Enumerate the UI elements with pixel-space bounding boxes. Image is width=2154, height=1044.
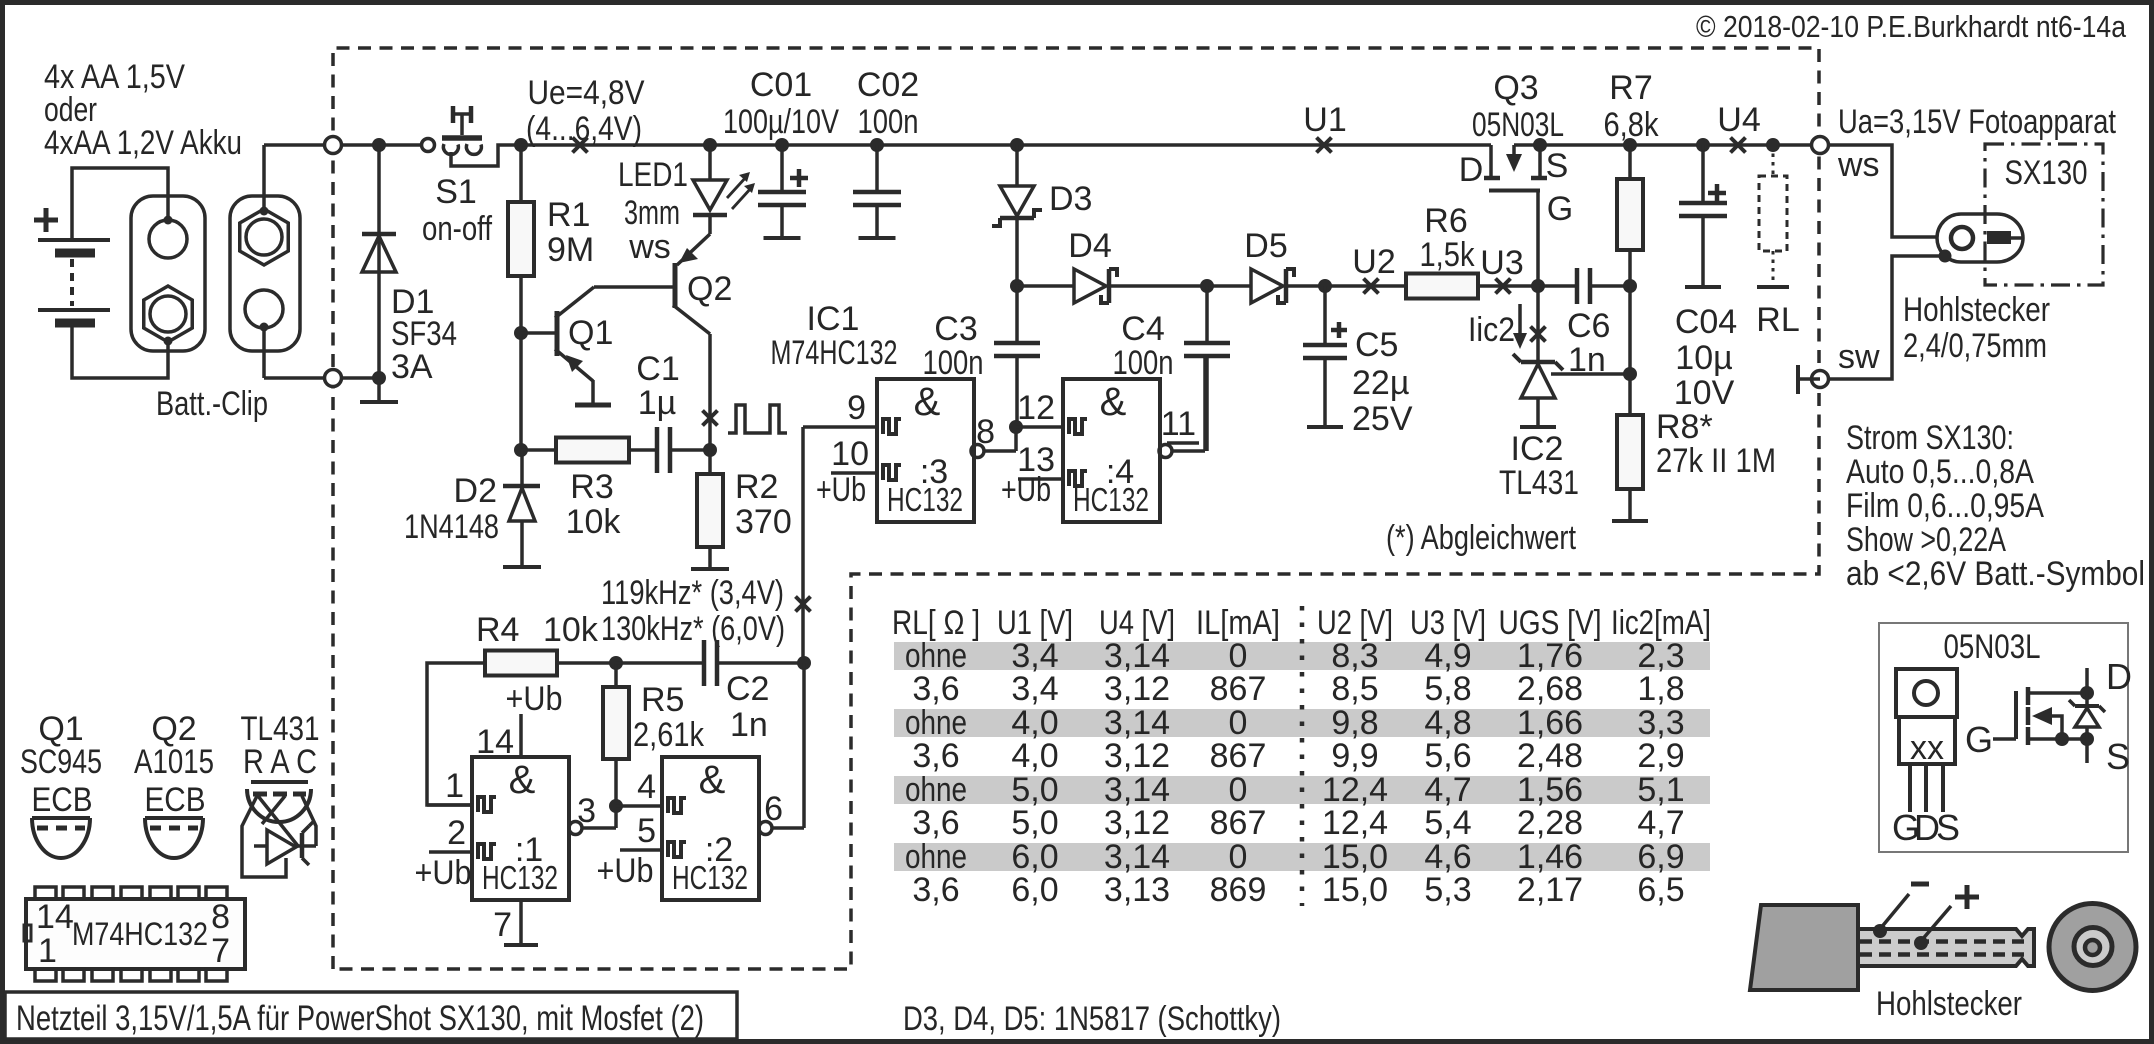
LED LED1 bbox=[708, 145, 712, 179]
connector sleeve dot bbox=[1939, 250, 1952, 263]
svg-text:11: 11 bbox=[1161, 405, 1196, 443]
gate :3 pin 10 bbox=[831, 471, 877, 475]
svg-text:Q1: Q1 bbox=[568, 314, 613, 352]
gate :4 pin 13 bbox=[1018, 477, 1063, 481]
svg-text:9: 9 bbox=[847, 389, 866, 427]
svg-text:3,13: 3,13 bbox=[1104, 871, 1170, 909]
main dashed outline box bbox=[333, 48, 1819, 969]
transistor Q1 bbox=[555, 311, 560, 356]
svg-text:100µ/10V: 100µ/10V bbox=[723, 103, 839, 141]
wire bottom rail bbox=[264, 376, 325, 380]
svg-text:U2: U2 bbox=[1352, 243, 1395, 281]
svg-text:130kHz* (6,0V): 130kHz* (6,0V) bbox=[601, 610, 785, 648]
svg-text:2,17: 2,17 bbox=[1517, 871, 1583, 909]
node terminal top-left bbox=[264, 143, 325, 147]
junction dot ref node bbox=[1623, 367, 1637, 381]
svg-text:5,0: 5,0 bbox=[1011, 804, 1058, 842]
gate :4 pin 12 bbox=[1016, 425, 1063, 429]
svg-text:370: 370 bbox=[735, 503, 792, 541]
svg-text:G: G bbox=[1547, 190, 1573, 228]
svg-text:2: 2 bbox=[447, 814, 466, 852]
transistor Q3 mosfet bbox=[1489, 145, 1493, 178]
svg-text:2,68: 2,68 bbox=[1517, 670, 1583, 708]
svg-text:10k: 10k bbox=[566, 503, 622, 541]
svg-text:on-off: on-off bbox=[422, 210, 492, 248]
svg-text:9M: 9M bbox=[547, 231, 594, 269]
ground below Q1 emitter bbox=[575, 403, 611, 408]
SX130 dash-dot box bbox=[1985, 144, 2103, 285]
junction dot R7 top bbox=[1623, 138, 1637, 152]
C01 plus sign bbox=[790, 176, 808, 181]
gate :2 pin 5 bbox=[620, 848, 662, 852]
svg-text:D4: D4 bbox=[1068, 227, 1111, 265]
svg-text:A1015: A1015 bbox=[134, 743, 214, 781]
junction dot D1 top bbox=[372, 138, 386, 152]
capacitor C02 bbox=[875, 145, 879, 192]
junction dot D3 top bbox=[1010, 138, 1024, 152]
gate :1 schmitt symbols bbox=[478, 797, 496, 812]
junction dot C04 top bbox=[1696, 138, 1710, 152]
node terminal bottom-left bbox=[325, 370, 342, 387]
Hohlstecker plus lead bbox=[1914, 936, 1928, 950]
measure cross Q2 collector bbox=[703, 411, 718, 426]
svg-text:6,0: 6,0 bbox=[1011, 871, 1058, 909]
capacitor C01 bbox=[780, 145, 784, 192]
capacitor C1 bbox=[655, 427, 660, 473]
table grey row bands bbox=[894, 642, 1710, 670]
svg-text:ECB: ECB bbox=[145, 781, 206, 819]
Q1 package symbol bbox=[32, 816, 90, 820]
svg-text:22µ: 22µ bbox=[1352, 364, 1409, 402]
svg-text:C1: C1 bbox=[636, 350, 679, 388]
op-amp U4 gate IC1:2 box bbox=[662, 757, 759, 900]
svg-text:10V: 10V bbox=[1674, 374, 1735, 412]
svg-text:5,3: 5,3 bbox=[1424, 871, 1471, 909]
capacitor C4 bbox=[1205, 286, 1209, 343]
Hohlstecker barrel bbox=[1858, 929, 2034, 966]
svg-text:3,12: 3,12 bbox=[1104, 804, 1170, 842]
svg-text:12: 12 bbox=[1017, 389, 1055, 427]
C04 plus sign bbox=[1708, 191, 1726, 196]
svg-text:10: 10 bbox=[831, 435, 869, 473]
svg-text:Ua=3,15V Fotoapparat: Ua=3,15V Fotoapparat bbox=[1838, 103, 2116, 141]
svg-text:C04: C04 bbox=[1675, 303, 1737, 341]
battery clip 1 bottom contact hex bbox=[144, 286, 192, 342]
svg-text:HC132: HC132 bbox=[482, 859, 558, 896]
resistor R2 bbox=[708, 450, 712, 474]
ground below IC2 bbox=[1520, 425, 1556, 429]
battery plus sign bbox=[34, 218, 58, 223]
junction dot C4 top node bbox=[1200, 279, 1214, 293]
ground below D2 bbox=[503, 565, 541, 569]
resistor R7 bbox=[1628, 145, 1632, 179]
wire pin3 to R5 node bbox=[614, 806, 618, 828]
svg-text:D3: D3 bbox=[1049, 180, 1092, 218]
op-amp U1 gate IC1:3 box bbox=[877, 379, 974, 522]
junction dot R1 top bbox=[514, 138, 528, 152]
wire top rail to switch bbox=[341, 143, 422, 147]
svg-text:3,6: 3,6 bbox=[912, 871, 959, 909]
svg-text:S: S bbox=[1546, 147, 1569, 185]
svg-text:Auto 0,5...0,8A: Auto 0,5...0,8A bbox=[1846, 453, 2034, 491]
junction dot D3-D4 node bbox=[1010, 279, 1024, 293]
svg-text:U4: U4 bbox=[1717, 101, 1760, 139]
svg-text:6,8k: 6,8k bbox=[1604, 106, 1660, 144]
svg-text:1n: 1n bbox=[730, 706, 768, 744]
svg-text:10k: 10k bbox=[543, 611, 599, 649]
shunt regulator IC2 TL431 bbox=[1536, 286, 1540, 362]
svg-text:ws: ws bbox=[628, 228, 671, 266]
svg-text:LED1: LED1 bbox=[618, 156, 688, 194]
svg-text:Q2: Q2 bbox=[687, 270, 732, 308]
svg-text:Netzteil 3,15V/1,5A für PowerS: Netzteil 3,15V/1,5A für PowerShot SX130,… bbox=[16, 999, 704, 1038]
wire switch bypass loop bbox=[451, 145, 521, 166]
ground below C5 bbox=[1307, 425, 1343, 429]
wire D4 to D5 bbox=[1109, 284, 1251, 288]
svg-text:TL431: TL431 bbox=[1499, 464, 1579, 502]
svg-text:05N03L: 05N03L bbox=[1944, 628, 2041, 666]
svg-text:+Ub: +Ub bbox=[415, 854, 472, 892]
wire R4 left to pin1 bbox=[427, 663, 485, 805]
wire pin6 up to C2 node bbox=[802, 663, 806, 828]
gate :2 pin 4 bbox=[616, 804, 662, 808]
svg-text:C6: C6 bbox=[1567, 307, 1610, 345]
gate :3 output bubble pin 8 bbox=[971, 445, 984, 458]
Hohlstecker barrel dashes bbox=[1860, 939, 2028, 944]
battery clip 2 top contact hex bbox=[240, 209, 288, 265]
svg-text:U3: U3 bbox=[1480, 244, 1523, 282]
svg-text:C01: C01 bbox=[750, 66, 812, 104]
svg-text:867: 867 bbox=[1210, 737, 1267, 775]
svg-text:SX130: SX130 bbox=[2005, 154, 2088, 192]
junction dot LED1 top bbox=[703, 138, 717, 152]
battery clip 1 top contact bbox=[149, 220, 187, 258]
svg-text:14: 14 bbox=[36, 898, 74, 936]
Hohlstecker plug body bbox=[1750, 905, 1858, 990]
svg-text:1: 1 bbox=[445, 767, 464, 805]
svg-text:1,8: 1,8 bbox=[1637, 670, 1684, 708]
svg-text:C5: C5 bbox=[1355, 326, 1398, 364]
LED1 light arrows bbox=[727, 176, 747, 198]
svg-text:HC132: HC132 bbox=[887, 481, 963, 518]
capacitor C5 electrolytic bbox=[1323, 286, 1327, 345]
svg-text:Iic2: Iic2 bbox=[1468, 311, 1515, 349]
svg-text:&: & bbox=[699, 758, 726, 802]
svg-text:3,12: 3,12 bbox=[1104, 737, 1170, 775]
svg-text:Film 0,6...0,95A: Film 0,6...0,95A bbox=[1846, 487, 2044, 525]
svg-text:25V: 25V bbox=[1352, 400, 1413, 438]
ground below RL bbox=[1757, 285, 1789, 289]
connector jack outline bbox=[1937, 214, 2023, 262]
wire R1 to R3 node bbox=[519, 333, 523, 450]
junction dot D1 bottom bbox=[372, 371, 386, 385]
gate :1 output bubble pin 3 bbox=[569, 822, 582, 835]
C5 plus sign bbox=[1331, 328, 1347, 333]
diode D1 bbox=[377, 145, 381, 378]
junction dot S bbox=[1533, 138, 1547, 152]
title box bbox=[5, 992, 737, 1039]
svg-text:4xAA 1,2V Akku: 4xAA 1,2V Akku bbox=[44, 124, 242, 162]
wire pin9 to C2 node bbox=[801, 427, 805, 664]
resistor R5 bbox=[614, 663, 618, 687]
svg-text:3,12: 3,12 bbox=[1104, 670, 1170, 708]
svg-text:IC2: IC2 bbox=[1511, 430, 1564, 468]
svg-text:D5: D5 bbox=[1244, 227, 1287, 265]
sw stub bbox=[1798, 377, 1820, 381]
svg-text:8: 8 bbox=[976, 413, 995, 451]
junction dot C2 right bbox=[797, 656, 811, 670]
junction dot C5 top node bbox=[1318, 279, 1332, 293]
ground below C04 bbox=[1685, 285, 1721, 289]
wire sw to connector bbox=[1829, 256, 1943, 379]
measure cross Ue bbox=[573, 138, 588, 153]
gate :2 output bubble pin 6 bbox=[759, 822, 772, 835]
svg-text:HC132: HC132 bbox=[672, 859, 748, 896]
svg-text:R6: R6 bbox=[1424, 202, 1467, 240]
svg-text:R3: R3 bbox=[570, 468, 613, 506]
svg-text:5: 5 bbox=[637, 812, 656, 850]
svg-text:ab <2,6V Batt.-Symbol: ab <2,6V Batt.-Symbol bbox=[1846, 555, 2145, 593]
svg-text:Show >0,22A: Show >0,22A bbox=[1846, 521, 2006, 559]
svg-text:Ue=4,8V: Ue=4,8V bbox=[528, 74, 645, 112]
svg-text:C2: C2 bbox=[726, 670, 769, 708]
svg-text:xx: xx bbox=[1910, 729, 1944, 767]
svg-text:27k II 1M: 27k II 1M bbox=[1656, 442, 1776, 480]
resistor R4 bbox=[485, 651, 557, 676]
Iic2 arrow and label bbox=[1518, 304, 1522, 336]
diode D2 bbox=[520, 450, 524, 486]
gate :3 pin 9 bbox=[803, 425, 877, 429]
svg-text:&: & bbox=[1100, 380, 1127, 424]
svg-text:2,9: 2,9 bbox=[1637, 737, 1684, 775]
junction dot C02 top bbox=[870, 138, 884, 152]
svg-text:R A C: R A C bbox=[243, 743, 317, 781]
junction dot C01 top bbox=[775, 138, 789, 152]
svg-text:R4: R4 bbox=[476, 611, 519, 649]
junction dot RL top bbox=[1766, 138, 1780, 152]
svg-text:867: 867 bbox=[1210, 804, 1267, 842]
Hohlstecker coax disc bbox=[2049, 904, 2136, 991]
connector ring contact bbox=[1951, 227, 1973, 249]
svg-text:100n: 100n bbox=[858, 103, 919, 141]
svg-text:ws: ws bbox=[1837, 146, 1880, 184]
junction dot R2 top bbox=[703, 443, 717, 457]
TL431 package symbol bbox=[251, 780, 308, 784]
svg-text:&: & bbox=[509, 758, 536, 802]
ground below R8 bbox=[1612, 519, 1648, 523]
wire rail S1 to mosfet bbox=[521, 143, 1491, 147]
svg-text:Batt.-Clip: Batt.-Clip bbox=[156, 385, 268, 423]
svg-text:Hohlstecker: Hohlstecker bbox=[1903, 291, 2050, 329]
wire Q2 collector down bbox=[708, 334, 712, 450]
svg-text:R2: R2 bbox=[735, 468, 778, 506]
battery clip 1 outline bbox=[131, 196, 205, 351]
junction dot pin3-R5-pin4 bbox=[609, 799, 623, 813]
svg-text:3,6: 3,6 bbox=[912, 737, 959, 775]
svg-text:(*) Abgleichwert: (*) Abgleichwert bbox=[1386, 519, 1576, 557]
05N03L inset box bbox=[1879, 623, 2128, 852]
svg-text:8,5: 8,5 bbox=[1331, 670, 1378, 708]
wire battery top bbox=[72, 168, 168, 240]
svg-text:S: S bbox=[1936, 807, 1960, 848]
gate :3 schmitt symbols bbox=[883, 419, 901, 434]
connector center pin bbox=[1987, 231, 2011, 244]
svg-text:15,0: 15,0 bbox=[1322, 871, 1388, 909]
svg-text:2,61k: 2,61k bbox=[633, 716, 705, 754]
svg-text:9,9: 9,9 bbox=[1331, 737, 1378, 775]
ground below C01 bbox=[764, 236, 801, 240]
svg-text:867: 867 bbox=[1210, 670, 1267, 708]
op-amp U2 gate IC1:4 box bbox=[1063, 379, 1160, 522]
Hohlstecker minus lead bbox=[1873, 924, 1887, 938]
svg-text:4,0: 4,0 bbox=[1011, 737, 1058, 775]
ground below C02 bbox=[859, 236, 896, 240]
junction dot C6 right bbox=[1623, 279, 1637, 293]
svg-text:Q3: Q3 bbox=[1493, 69, 1538, 107]
gate :4 output bubble pin 11 bbox=[1159, 445, 1172, 458]
battery B1 symbol bbox=[38, 238, 110, 242]
svg-text:8: 8 bbox=[211, 898, 230, 936]
svg-text:3,6: 3,6 bbox=[912, 670, 959, 708]
svg-text:4,7: 4,7 bbox=[1637, 804, 1684, 842]
svg-text:6: 6 bbox=[764, 790, 783, 828]
wire D3 node to D4 bbox=[1017, 284, 1074, 288]
gate :1 pin 2 bbox=[429, 850, 472, 854]
wire ws to connector bbox=[1829, 145, 1937, 237]
svg-text:R5: R5 bbox=[641, 681, 684, 719]
junction dot R5 top bbox=[609, 656, 623, 670]
svg-text:6,5: 6,5 bbox=[1637, 871, 1684, 909]
junction dot R3 left bbox=[514, 443, 528, 457]
svg-text:3: 3 bbox=[577, 792, 596, 830]
svg-text:05N03L: 05N03L bbox=[1472, 106, 1564, 144]
svg-text:119kHz* (3,4V): 119kHz* (3,4V) bbox=[601, 574, 784, 612]
svg-text:3,4: 3,4 bbox=[1011, 670, 1058, 708]
svg-text:ECB: ECB bbox=[32, 781, 93, 819]
svg-text:D: D bbox=[1459, 151, 1484, 189]
svg-text:+Ub: +Ub bbox=[816, 471, 866, 509]
svg-text:SC945: SC945 bbox=[20, 743, 102, 781]
resistor R8 bbox=[1617, 415, 1643, 489]
wire battery bottom bbox=[72, 327, 168, 378]
wire pin8 to pin12 node bbox=[1014, 427, 1018, 451]
gate :4 schmitt symbols bbox=[1069, 419, 1087, 434]
diode D5 schottky bbox=[1251, 269, 1283, 303]
svg-text:D3, D4, D5: 1N5817 (Schottky): D3, D4, D5: 1N5817 (Schottky) bbox=[903, 1000, 1281, 1038]
svg-text:14: 14 bbox=[476, 723, 514, 761]
svg-text:C4: C4 bbox=[1121, 310, 1164, 348]
svg-text:© 2018-02-10 P.E.Burkhardt nt6: © 2018-02-10 P.E.Burkhardt nt6-14a bbox=[1696, 9, 2127, 44]
ground below D1 bbox=[360, 400, 398, 404]
svg-text:1µ: 1µ bbox=[638, 384, 677, 422]
wire rail S to ws terminal bbox=[1514, 143, 1819, 147]
svg-text:2,48: 2,48 bbox=[1517, 737, 1583, 775]
resistor R6 bbox=[1406, 274, 1478, 299]
wire pin11 to C4 bbox=[1203, 356, 1207, 451]
svg-text:RL: RL bbox=[1756, 301, 1799, 339]
capacitor C6 bbox=[1538, 284, 1577, 288]
svg-text:1: 1 bbox=[38, 932, 57, 970]
svg-text:2,4/0,75mm: 2,4/0,75mm bbox=[1903, 327, 2047, 365]
resistor R3 bbox=[521, 448, 556, 452]
05N03L package drawing bbox=[1896, 669, 1957, 717]
Q2 package symbol bbox=[145, 816, 203, 820]
svg-text:+Ub: +Ub bbox=[1001, 471, 1051, 509]
battery clip 2 outline bbox=[230, 196, 300, 351]
terminal ws bbox=[1812, 137, 1829, 154]
diode D4 schottky bbox=[1074, 269, 1106, 303]
svg-text:IC1: IC1 bbox=[807, 300, 860, 338]
measure cross pin9 branch bbox=[796, 597, 811, 612]
svg-text:U1: U1 bbox=[1303, 101, 1346, 139]
op-amp U3 gate IC1:1 box bbox=[472, 757, 569, 900]
svg-text:D2: D2 bbox=[454, 472, 497, 510]
svg-text:7: 7 bbox=[493, 906, 512, 944]
gate :1 pin 1 bbox=[427, 803, 472, 807]
svg-text:R7: R7 bbox=[1609, 69, 1652, 107]
svg-text:R8*: R8* bbox=[1656, 408, 1713, 446]
capacitor C04 electrolytic bbox=[1701, 145, 1705, 203]
svg-text:869: 869 bbox=[1210, 871, 1267, 909]
capacitor C3 bbox=[1015, 286, 1019, 343]
svg-text:1,5k: 1,5k bbox=[1420, 236, 1476, 274]
svg-text:100n: 100n bbox=[923, 344, 984, 382]
capacitor C2 bbox=[616, 661, 704, 665]
svg-text:1N4148: 1N4148 bbox=[404, 508, 499, 546]
svg-text:Strom SX130:: Strom SX130: bbox=[1846, 419, 2014, 457]
junction dot U3 node bbox=[1531, 279, 1545, 293]
junction dot pin12 node bbox=[1009, 420, 1023, 434]
svg-text:5,4: 5,4 bbox=[1424, 804, 1471, 842]
svg-text:5,8: 5,8 bbox=[1424, 670, 1471, 708]
wire D5 to R6 bbox=[1286, 284, 1406, 288]
svg-text:sw: sw bbox=[1838, 338, 1880, 376]
svg-text:M74HC132: M74HC132 bbox=[771, 334, 898, 372]
ground below R2 bbox=[691, 567, 729, 571]
transistor Q2 bbox=[673, 263, 678, 308]
IC package M74HC132 DIP bbox=[26, 899, 245, 969]
svg-text:&: & bbox=[914, 380, 941, 424]
wire R7 to R8 bbox=[1628, 287, 1632, 415]
svg-text:+Ub: +Ub bbox=[597, 852, 654, 890]
gate :2 schmitt symbols bbox=[668, 798, 686, 813]
junction dot Q1 base node bbox=[514, 326, 528, 340]
battery clip 2 bottom contact bbox=[245, 290, 283, 328]
svg-text:7: 7 bbox=[211, 932, 230, 970]
table dotted separator bbox=[1300, 606, 1305, 906]
wire Q1 collector to Q2 base bbox=[594, 285, 674, 289]
measure cross Iic2 bbox=[1531, 327, 1546, 342]
svg-text:4: 4 bbox=[637, 768, 656, 806]
svg-text:5,6: 5,6 bbox=[1424, 737, 1471, 775]
svg-text:10µ: 10µ bbox=[1675, 339, 1732, 377]
wire clip2 to rails bbox=[262, 145, 266, 211]
terminal sw bbox=[1812, 371, 1829, 388]
svg-text:M74HC132: M74HC132 bbox=[72, 916, 208, 952]
svg-text:C02: C02 bbox=[857, 66, 919, 104]
svg-text:D: D bbox=[2106, 656, 2132, 697]
wire R6 to U3 node bbox=[1478, 284, 1538, 288]
switch S1 bbox=[422, 139, 435, 152]
svg-text:3mm: 3mm bbox=[624, 194, 680, 232]
svg-text:S1: S1 bbox=[435, 173, 477, 211]
svg-text:3A: 3A bbox=[391, 348, 433, 386]
diode D3 schottky bbox=[1015, 145, 1019, 186]
svg-text:12,4: 12,4 bbox=[1322, 804, 1388, 842]
svg-text:3,6: 3,6 bbox=[912, 804, 959, 842]
svg-text:Hohlstecker: Hohlstecker bbox=[1876, 985, 2022, 1023]
resistor RL dashed bbox=[1772, 145, 1775, 176]
